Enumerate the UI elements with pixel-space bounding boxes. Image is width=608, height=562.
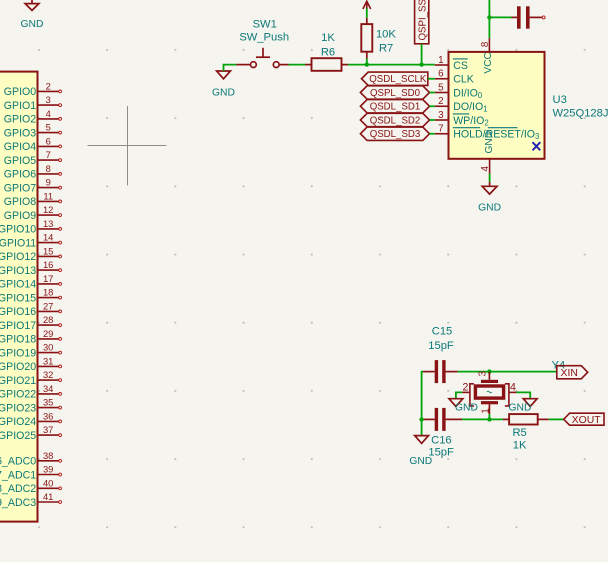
svg-text:HOLD/RESET/IO3: HOLD/RESET/IO3 — [453, 129, 539, 142]
svg-text:GPIO3: GPIO3 — [4, 127, 36, 139]
global label QSPL_SD0 — [360, 86, 434, 99]
svg-text:1K: 1K — [321, 32, 335, 44]
U3 pin 3 — [435, 110, 449, 121]
svg-text:1: 1 — [480, 408, 491, 414]
ground (at SW1) — [217, 71, 231, 79]
global label XIN — [557, 366, 588, 379]
svg-text:XOUT: XOUT — [572, 415, 602, 426]
svg-text:GPIO4: GPIO4 — [4, 141, 36, 153]
svg-text:GPIO18: GPIO18 — [0, 334, 36, 346]
svg-text:SW1: SW1 — [253, 18, 277, 30]
resistor R6 1K — [305, 32, 348, 71]
svg-text:37: 37 — [43, 424, 53, 435]
svg-text:10K: 10K — [376, 28, 396, 40]
U3 pin name WP/IO2 — [453, 114, 489, 127]
svg-text:GPIO9: GPIO9 — [4, 210, 36, 222]
svg-text:GPIO28_ADC2: GPIO28_ADC2 — [0, 483, 36, 495]
svg-text:VCC: VCC — [483, 52, 494, 74]
svg-text:QSPL_SD0: QSPL_SD0 — [370, 88, 421, 99]
svg-text:QSDL_SD2: QSDL_SD2 — [370, 115, 421, 126]
svg-text:GND: GND — [509, 402, 532, 413]
svg-text:1K: 1K — [513, 439, 527, 451]
IC U3 W25Q128JV — [449, 52, 545, 159]
svg-text:31: 31 — [43, 355, 53, 366]
svg-text:11: 11 — [43, 190, 53, 201]
svg-text:GPIO29_ADC3: GPIO29_ADC3 — [0, 497, 36, 509]
svg-text:6: 6 — [438, 69, 444, 80]
pin 6 (GPIO4) — [4, 135, 62, 153]
wire C15 to XIN — [458, 371, 557, 373]
cursor crosshair — [88, 106, 167, 186]
svg-text:15: 15 — [43, 245, 53, 256]
svg-text:GND: GND — [212, 88, 235, 99]
svg-text:29: 29 — [43, 328, 53, 339]
svg-text:GPIO27_ADC1: GPIO27_ADC1 — [0, 469, 36, 481]
svg-text:30: 30 — [43, 342, 53, 353]
svg-text:GPIO22: GPIO22 — [0, 389, 36, 401]
pin 28 (GPIO17) — [0, 314, 61, 332]
U3 pin 2 — [435, 96, 449, 107]
global label QSDL_SCLK — [362, 72, 435, 85]
pin 36 (GPIO24) — [0, 410, 61, 428]
wire crystal pin2 to ground — [456, 392, 463, 398]
junction QSPI_SS/wire — [419, 62, 423, 66]
svg-text:9: 9 — [46, 177, 51, 188]
svg-text:3: 3 — [478, 371, 489, 377]
svg-text:GPIO8: GPIO8 — [4, 196, 36, 208]
svg-text:7: 7 — [46, 149, 51, 160]
global label QSPI_SS (vertical) — [415, 0, 429, 44]
svg-text:GPIO23: GPIO23 — [0, 402, 36, 414]
pin 35 (GPIO23) — [0, 397, 61, 415]
capacitor C15 15pF — [423, 325, 458, 383]
ground (below C16) — [415, 436, 429, 444]
svg-text:GND: GND — [455, 402, 478, 413]
svg-text:28: 28 — [43, 314, 53, 325]
svg-text:GPIO16: GPIO16 — [0, 306, 36, 318]
global label QSDL_SD1 — [360, 100, 434, 113]
svg-text:GPIO19: GPIO19 — [0, 347, 36, 359]
pin 13 (GPIO10) — [0, 218, 61, 236]
pin 4 (GPIO2) — [4, 108, 62, 126]
svg-text:18: 18 — [43, 287, 53, 298]
global label QSDL_SD2 — [360, 113, 434, 126]
svg-text:GPIO0: GPIO0 — [4, 86, 36, 98]
svg-text:GPIO14: GPIO14 — [0, 279, 36, 291]
svg-text:W25Q128JVS: W25Q128JVS — [553, 108, 608, 120]
U3 pin 5 — [435, 82, 449, 93]
svg-text:36: 36 — [43, 410, 53, 421]
U3 pin 7 — [435, 124, 449, 135]
wire R5 to XOUT — [549, 418, 564, 420]
junction R7/wire — [365, 62, 369, 66]
pin 34 (GPIO22) — [0, 383, 61, 401]
svg-text:8: 8 — [46, 163, 51, 174]
svg-text:GPIO10: GPIO10 — [0, 224, 36, 236]
wire VCC rail to U3 pin8 — [488, 0, 490, 38]
wire C15/C16 left to ground — [422, 372, 423, 436]
global label XOUT — [564, 413, 604, 426]
power VCC (above R7) — [363, 1, 371, 9]
pin 3 (GPIO1) — [4, 94, 62, 112]
wire crystal pin4 to ground — [516, 392, 530, 398]
pin 41 (GPIO29_ADC3) — [0, 491, 61, 509]
wire SW1 to R6 — [289, 64, 306, 66]
crystal Y4 — [462, 360, 565, 420]
pin 5 (GPIO3) — [4, 122, 62, 140]
svg-text:GPIO2: GPIO2 — [4, 114, 36, 126]
pin 30 (GPIO19) — [0, 342, 61, 360]
svg-text:U3: U3 — [553, 94, 567, 106]
ground (crystal right) — [523, 399, 537, 407]
svg-text:GPIO5: GPIO5 — [4, 155, 36, 167]
global label QSDL_SD3 — [360, 127, 434, 140]
svg-text:QSDL_SCLK: QSDL_SCLK — [369, 74, 427, 85]
junction C16/gnd wire — [419, 417, 423, 421]
svg-text:15pF: 15pF — [428, 340, 454, 352]
wire junction to capacitor — [489, 16, 511, 18]
svg-text:GPIO20: GPIO20 — [0, 361, 36, 373]
svg-text:38: 38 — [43, 450, 53, 461]
pin 29 (GPIO18) — [0, 328, 61, 346]
ground (under U3) — [482, 182, 497, 194]
svg-text:GPIO25: GPIO25 — [0, 430, 36, 442]
svg-text:14: 14 — [43, 232, 53, 243]
svg-text:27: 27 — [43, 300, 53, 311]
svg-text:SW_Push: SW_Push — [239, 32, 289, 44]
svg-text:16: 16 — [43, 259, 53, 270]
svg-text:QSDL_SD3: QSDL_SD3 — [370, 129, 421, 140]
wire QSPI_SS to bus — [421, 44, 423, 65]
svg-text:32: 32 — [43, 369, 53, 380]
svg-text:GPIO21: GPIO21 — [0, 375, 36, 387]
pin 37 (GPIO25) — [0, 424, 61, 442]
svg-text:C16: C16 — [431, 434, 452, 446]
svg-text:GND: GND — [409, 456, 432, 467]
pin 14 (GPIO11) — [0, 232, 61, 250]
svg-text:2: 2 — [462, 382, 468, 394]
pin 27 (GPIO16) — [0, 300, 61, 318]
pin 40 (GPIO28_ADC2) — [0, 477, 61, 495]
svg-text:CS: CS — [453, 60, 468, 72]
ground (top-left) — [25, 0, 39, 10]
pin 38 (GPIO26_ADC0) — [0, 450, 61, 468]
pin 17 (GPIO14) — [0, 273, 61, 291]
U3 pin name VCC (pin 8, top) — [480, 38, 494, 74]
svg-text:7: 7 — [438, 124, 443, 135]
wire U3 pin4 to ground — [489, 174, 491, 182]
svg-text:GND: GND — [484, 131, 495, 154]
svg-text:13: 13 — [43, 218, 53, 229]
pin 9 (GPIO7) — [4, 177, 62, 195]
svg-text:R5: R5 — [512, 427, 526, 439]
pin 15 (GPIO12) — [0, 245, 61, 263]
svg-text:4: 4 — [510, 382, 516, 394]
svg-text:QSDL_SD1: QSDL_SD1 — [370, 102, 421, 113]
pin 8 (GPIO6) — [4, 163, 62, 181]
svg-text:17: 17 — [43, 273, 53, 284]
svg-text:GPIO13: GPIO13 — [0, 265, 36, 277]
junction crystal pin1 — [487, 417, 491, 421]
switch SW1 SW_Push — [237, 18, 290, 67]
svg-text:3: 3 — [46, 94, 51, 105]
svg-text:GPIO12: GPIO12 — [0, 251, 36, 263]
svg-text:QSPI_SS: QSPI_SS — [418, 0, 429, 41]
wire VCC to R7 — [366, 9, 368, 18]
svg-text:GPIO11: GPIO11 — [0, 237, 36, 249]
resistor R5 1K — [503, 414, 549, 451]
svg-text:GND: GND — [21, 19, 44, 30]
svg-text:GND: GND — [478, 203, 501, 214]
svg-text:6: 6 — [46, 135, 51, 146]
svg-text:GPIO6: GPIO6 — [4, 169, 36, 181]
svg-text:4: 4 — [46, 108, 51, 119]
svg-text:39: 39 — [43, 464, 53, 475]
wire SW1 to GND — [224, 65, 237, 71]
svg-text:3: 3 — [438, 110, 444, 121]
pin 39 (GPIO27_ADC1) — [0, 464, 61, 482]
svg-text:8: 8 — [480, 41, 491, 47]
svg-text:XIN: XIN — [561, 368, 578, 379]
svg-text:35: 35 — [43, 397, 53, 408]
svg-text:GPIO15: GPIO15 — [0, 292, 36, 304]
svg-text:4: 4 — [480, 166, 491, 172]
U3 pin name CS — [453, 59, 468, 72]
svg-text:40: 40 — [43, 477, 53, 488]
wire R6 to U3 CS — [348, 64, 435, 66]
U3 pin name HOLD/RESET/IO3 — [453, 128, 540, 141]
svg-text:R6: R6 — [321, 46, 335, 58]
pin 11 (GPIO8) — [4, 190, 62, 208]
ground (crystal left) — [449, 399, 463, 407]
svg-text:C15: C15 — [432, 325, 453, 337]
svg-text:5: 5 — [46, 122, 51, 133]
svg-text:GPIO17: GPIO17 — [0, 320, 36, 332]
svg-text:WP/IO2: WP/IO2 — [453, 115, 489, 128]
pin 18 (GPIO15) — [0, 287, 61, 305]
pin 12 (GPIO9) — [4, 204, 62, 222]
svg-text:2: 2 — [46, 80, 51, 91]
U3 pin 1 — [435, 55, 449, 66]
svg-text:R7: R7 — [379, 43, 393, 55]
junction VCC/cap — [487, 15, 491, 19]
pin 32 (GPIO21) — [0, 369, 61, 387]
svg-text:1: 1 — [438, 55, 443, 66]
pin 2 (GPIO0) — [4, 80, 62, 98]
pin 7 (GPIO5) — [4, 149, 62, 167]
svg-text:CLK: CLK — [453, 74, 474, 86]
svg-text:41: 41 — [43, 491, 53, 502]
pin 16 (GPIO13) — [0, 259, 61, 277]
resistor R7 10K — [361, 18, 396, 65]
svg-text:5: 5 — [438, 82, 444, 93]
capacitor C16 15pF — [423, 408, 462, 459]
svg-text:12: 12 — [43, 204, 53, 215]
pin 31 (GPIO20) — [0, 355, 61, 373]
svg-text:DO/IO1: DO/IO1 — [453, 101, 487, 114]
svg-text:GPIO26_ADC0: GPIO26_ADC0 — [0, 456, 36, 468]
capacitor C (decoupling, unconnected right) — [512, 6, 546, 28]
svg-text:34: 34 — [43, 383, 53, 394]
U3 pin 6 — [435, 69, 449, 80]
U3 DNC cross — [533, 142, 541, 150]
U3 pin name GND (pin 4, bottom) — [480, 131, 495, 174]
svg-text:GPIO24: GPIO24 — [0, 416, 36, 428]
svg-text:GPIO1: GPIO1 — [4, 100, 36, 112]
wire C16 to R5 — [462, 418, 503, 420]
svg-text:GPIO7: GPIO7 — [4, 182, 36, 194]
IC U (RP2040 MCU, partially off-canvas) — [0, 72, 38, 522]
junction crystal pin3 — [487, 369, 491, 373]
svg-text:2: 2 — [438, 96, 443, 107]
